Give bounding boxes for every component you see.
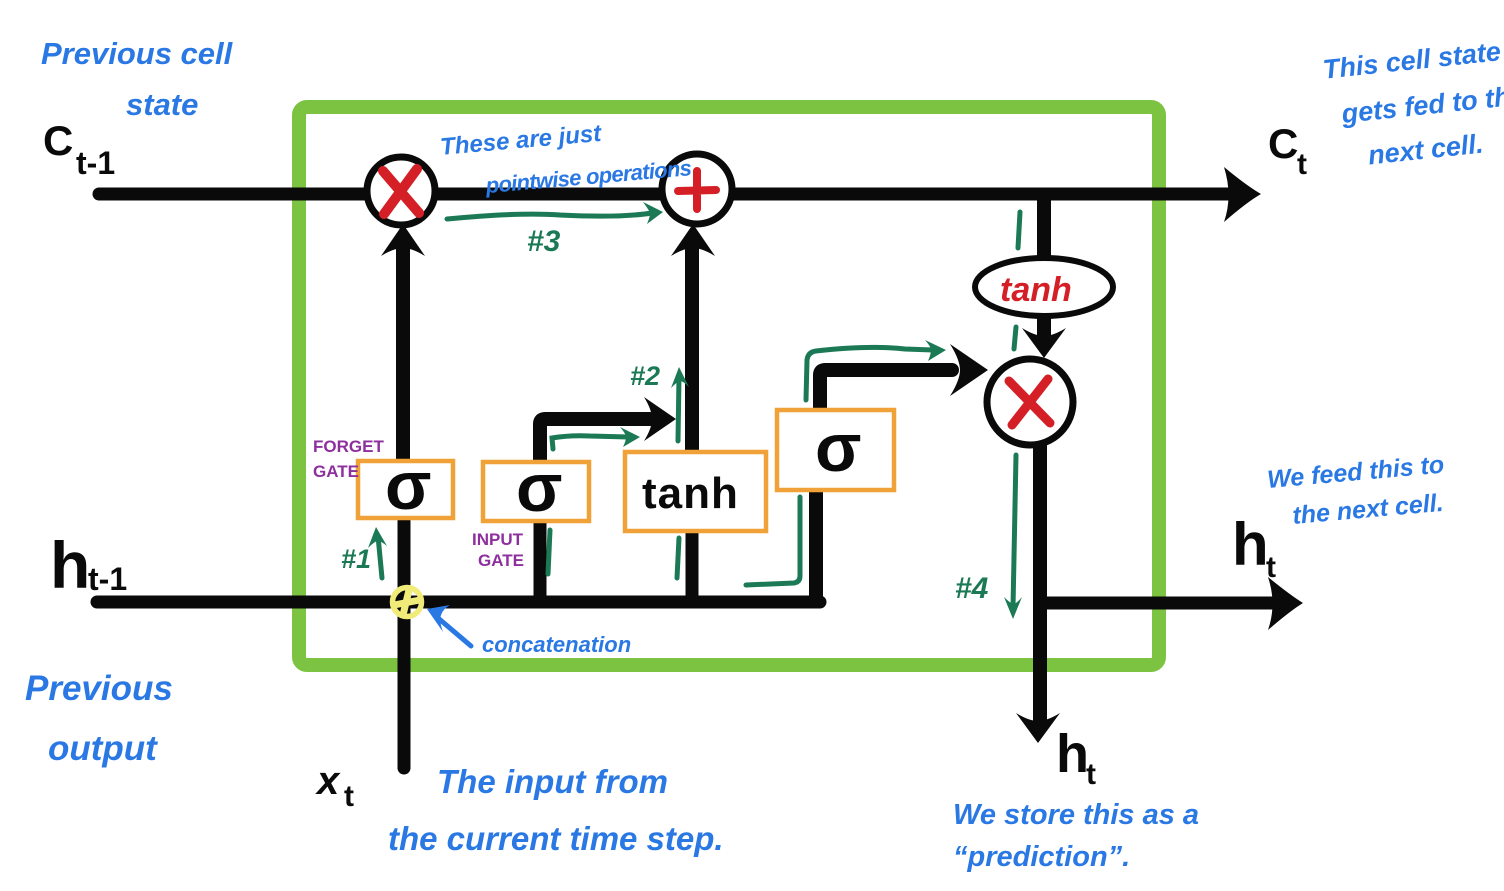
multiply node circle 2 — [987, 359, 1073, 445]
label h_{t-1} — [50, 528, 127, 602]
wire branch top line down to tanh ellipse — [1037, 197, 1051, 259]
svg-text:We store this as a: We store this as a — [953, 799, 1199, 831]
svg-text:σ: σ — [815, 410, 862, 486]
svg-text:FORGET: FORGET — [313, 437, 384, 456]
purple label forget gate — [313, 437, 384, 481]
wire tanh down to h line — [686, 531, 699, 600]
wire sigma2 up and right — [540, 397, 676, 462]
svg-text:concatenation: concatenation — [482, 632, 631, 657]
green annotation #2 arrow — [630, 361, 689, 441]
blue note we store prediction — [953, 799, 1199, 873]
svg-text:GATE: GATE — [313, 462, 359, 481]
svg-text:C: C — [1268, 120, 1298, 167]
wire tanh up to add — [671, 224, 715, 452]
label h_t bottom — [1056, 724, 1096, 791]
svg-text:#4: #4 — [955, 572, 989, 605]
blue note concatenation — [482, 632, 631, 657]
svg-text:h: h — [1056, 724, 1089, 784]
wire sigma1 up to multiply — [381, 224, 425, 462]
multiply node circle 1 — [367, 157, 435, 225]
label h_t right — [1232, 511, 1276, 584]
wire sigma2 down to h line — [534, 521, 547, 600]
green annotation #4 arrow — [955, 455, 1022, 619]
tanh ellipse node — [975, 258, 1113, 316]
concatenation node — [393, 588, 422, 617]
wire multiply2 down and h_t output arrow down — [1016, 445, 1060, 743]
svg-text:x: x — [315, 759, 341, 803]
blue note this cell state gets fed — [1321, 34, 1504, 174]
wire tanh ellipse down to multiply2 — [1022, 316, 1066, 358]
hidden state line h_{t-1} — [97, 596, 820, 609]
blue note previous cell state — [41, 36, 234, 122]
green annotation #3 arrow — [447, 202, 663, 258]
add node circle — [662, 154, 732, 224]
svg-text:t: t — [1297, 148, 1307, 181]
svg-text:σ: σ — [385, 448, 432, 524]
green tick below sigma2 — [548, 530, 550, 574]
svg-text:output: output — [48, 729, 158, 768]
tanh gate box — [625, 452, 766, 531]
blue arrow to concatenation — [427, 605, 471, 646]
svg-text:h: h — [50, 528, 90, 602]
label x_t — [315, 759, 354, 813]
svg-text:h: h — [1232, 511, 1269, 578]
sigma1 forget gate box — [358, 448, 453, 524]
sigma4 output gate box — [777, 410, 894, 490]
svg-text:“prediction”.: “prediction”. — [953, 841, 1130, 873]
label C_t — [1268, 120, 1307, 181]
green tick below tanh box — [677, 538, 679, 578]
svg-text:t-1: t-1 — [88, 561, 127, 597]
sigma2 input gate box — [483, 450, 589, 526]
svg-text:the current time step.: the current time step. — [388, 820, 724, 857]
blue note pointwise operations — [439, 112, 692, 201]
svg-text:t: t — [344, 780, 354, 813]
svg-text:#3: #3 — [527, 225, 561, 258]
green path along sigma4 wire — [746, 340, 946, 585]
green small arrow above sigma2 wire — [552, 427, 640, 449]
svg-text:INPUT: INPUT — [472, 530, 524, 549]
svg-text:GATE: GATE — [478, 551, 524, 570]
wire sigma4 up and right to multiply2 — [820, 344, 988, 410]
green dashed ticks right column — [1014, 212, 1020, 349]
purple label input gate — [472, 530, 524, 570]
svg-text:tanh: tanh — [642, 469, 739, 518]
blue note previous output — [25, 669, 173, 768]
svg-text:C: C — [43, 117, 73, 164]
blue note input from current time step — [388, 763, 724, 857]
svg-text:t-1: t-1 — [76, 145, 115, 181]
green annotation #1 arrow — [341, 527, 387, 578]
x_t input vertical wire — [398, 518, 411, 768]
svg-text:Previous cell: Previous cell — [41, 36, 234, 71]
wire h_t output arrow right — [1040, 577, 1303, 630]
svg-text:tanh: tanh — [1000, 271, 1072, 309]
blue note we feed this — [1266, 451, 1448, 532]
svg-text:state: state — [126, 87, 198, 122]
svg-text:Previous: Previous — [25, 669, 173, 708]
svg-text:σ: σ — [516, 450, 563, 526]
label C_{t-1} — [43, 117, 115, 181]
svg-text:t: t — [1266, 551, 1276, 584]
green cell boundary — [299, 107, 1159, 665]
svg-text:t: t — [1086, 758, 1096, 791]
svg-text:The input from: The input from — [437, 763, 668, 800]
cell state line C_{t-1} to C_t — [99, 167, 1261, 222]
wire h line up into sigma4 — [809, 490, 823, 600]
svg-text:#2: #2 — [630, 361, 660, 391]
svg-text:#1: #1 — [341, 544, 371, 574]
